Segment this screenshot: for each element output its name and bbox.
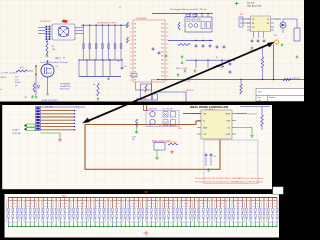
svg-text:VC2: VC2 (161, 76, 164, 78)
svg-text:VC2: VC2 (161, 80, 164, 82)
svg-text:TS: TS (134, 48, 136, 50)
svg-text:J1 BATT: J1 BATT (12, 129, 20, 132)
svg-text:C12: C12 (213, 156, 216, 158)
svg-text:1uF: 1uF (124, 66, 127, 68)
svg-text:12V_PWR: 12V_PWR (45, 106, 54, 108)
svg-text:PACK_CONN: PACK_CONN (176, 67, 188, 70)
svg-text:DC on circuit 12V0_SYS of Q-DI: DC on circuit 12V0_SYS of Q-DIS LT/4 12_… (195, 181, 263, 184)
svg-text:0.35uH: 0.35uH (15, 82, 21, 84)
svg-text:VC2: VC2 (161, 52, 164, 54)
svg-text:EN: EN (252, 23, 254, 25)
svg-text:VIN: VIN (252, 19, 255, 21)
svg-text:VC2: VC2 (161, 40, 164, 42)
svg-text:F2: F2 (119, 7, 121, 9)
svg-text:OUT: OUT (203, 134, 206, 136)
svg-text:12A / Boost 5V@: 12A / Boost 5V@ (247, 4, 262, 7)
svg-text:J2-1: J2-1 (24, 97, 27, 99)
svg-text:VC2: VC2 (161, 68, 164, 70)
svg-text:VC2: VC2 (161, 28, 164, 30)
svg-text:TS: TS (134, 80, 136, 82)
svg-text:TS: TS (134, 76, 136, 78)
svg-text:TS: TS (134, 64, 136, 66)
svg-text:TS: TS (134, 68, 136, 70)
svg-text:P1: P1 (77, 107, 79, 109)
svg-text:VC2: VC2 (161, 72, 164, 74)
svg-text:12V0_SYS: 12V0_SYS (248, 113, 258, 115)
svg-text:SUPERVISOR + PROT: SUPERVISOR + PROT (97, 22, 118, 24)
svg-text:TS: TS (134, 52, 136, 54)
svg-text:TS: TS (134, 44, 136, 46)
svg-text:VC2: VC2 (161, 36, 164, 38)
svg-text:Q1: Q1 (56, 66, 58, 68)
svg-text:RT: RT (216, 57, 218, 59)
svg-text:FB: FB (267, 23, 269, 25)
svg-text:Vin: Vin (117, 61, 119, 63)
svg-text:VC2: VC2 (161, 24, 164, 26)
svg-text:R1: R1 (52, 46, 54, 48)
svg-text:12V IC-F: 12V IC-F (247, 2, 255, 4)
svg-text:OVP: OVP (55, 57, 58, 59)
svg-text:o5: o5 (1, 89, 3, 91)
svg-text:50V: 50V (132, 139, 135, 141)
svg-text:VC2: VC2 (161, 32, 164, 34)
svg-text:This Supply will been sound NO: This Supply will been sound NO_12V rail (170, 9, 207, 11)
svg-text:U12 LM5050-1: U12 LM5050-1 (205, 109, 215, 111)
svg-text:TS: TS (134, 24, 136, 26)
svg-text:Size: Size (258, 97, 261, 99)
svg-text:RDS 2.9mOhm: RDS 2.9mOhm (60, 89, 70, 91)
svg-text:VC2: VC2 (161, 44, 164, 46)
svg-text:12V0: 12V0 (273, 35, 277, 37)
svg-text:DC on switch 12V0_SYS of Q-DIS: DC on switch 12V0_SYS of Q-DIS LOAD 12_L… (195, 177, 264, 180)
svg-text:BQ_CHG_FET: BQ_CHG_FET (163, 108, 174, 110)
svg-text:IDEAL DIODE CONTROLLER: IDEAL DIODE CONTROLLER (190, 105, 228, 109)
svg-text:CONN_BAT: CONN_BAT (12, 132, 21, 135)
svg-text:Number: Number (269, 96, 275, 99)
svg-text:TS: TS (134, 36, 136, 38)
svg-text:12V0_IN: 12V0_IN (292, 78, 300, 80)
svg-text:VC2: VC2 (161, 60, 164, 62)
svg-text:IN PACK 12V4 BLK: IN PACK 12V4 BLK (42, 99, 58, 102)
svg-text:A2: A2 (259, 99, 261, 102)
svg-text:U1 BQ40Z80: U1 BQ40Z80 (136, 18, 147, 20)
svg-text:12V IN BLK: 12V IN BLK (40, 21, 51, 23)
svg-text:R R L: R R L (20, 67, 24, 69)
svg-text:TS: TS (134, 32, 136, 34)
svg-text:TS: TS (134, 56, 136, 58)
svg-text:0.1uF: 0.1uF (132, 137, 136, 139)
svg-text:12_OVP_OK_BLK: 12_OVP_OK_BLK (1, 73, 18, 75)
svg-text:PACK-: PACK- (1, 76, 7, 79)
svg-text:PACK+ A: PACK+ A (186, 89, 195, 92)
svg-text:NR: NR (63, 57, 65, 59)
svg-text:100k: 100k (52, 49, 56, 51)
svg-text:TS: TS (134, 60, 136, 62)
svg-text:TS: TS (134, 40, 136, 42)
svg-text:VC2: VC2 (161, 64, 164, 66)
svg-text:5V0: 5V0 (240, 14, 243, 16)
svg-text:VC2: VC2 (161, 48, 164, 50)
svg-text:VC2: VC2 (161, 56, 164, 58)
svg-text:bq: bq (93, 84, 95, 86)
svg-text:TS: TS (134, 28, 136, 30)
